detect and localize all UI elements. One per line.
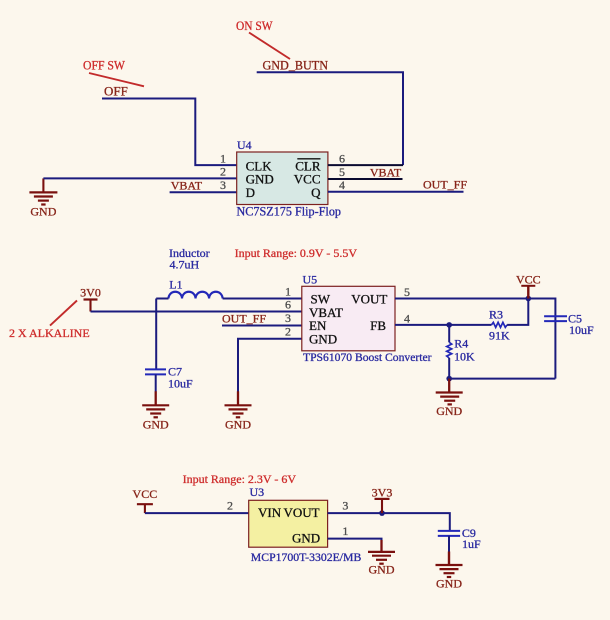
svg-text:D: D xyxy=(246,185,255,200)
svg-text:3V3: 3V3 xyxy=(372,485,393,499)
wire OFF to U4 pin 1 (CLK) xyxy=(102,99,237,166)
svg-text:NC7SZ175 Flip-Flop: NC7SZ175 Flip-Flop xyxy=(237,204,342,218)
pointer line for OFF SW xyxy=(89,73,144,86)
svg-text:10uF: 10uF xyxy=(168,376,193,390)
svg-text:2: 2 xyxy=(285,325,291,339)
wire C7 to ground xyxy=(155,374,157,391)
svg-text:TPS61070 Boost Converter: TPS61070 Boost Converter xyxy=(303,350,432,364)
junction dot 3V3 xyxy=(379,510,385,516)
svg-text:2 X ALKALINE: 2 X ALKALINE xyxy=(9,326,90,340)
svg-text:Input Range: 2.3V - 6V: Input Range: 2.3V - 6V xyxy=(183,472,297,486)
capacitor C5 xyxy=(544,316,567,321)
svg-text:MCP1700T-3302E/MB: MCP1700T-3302E/MB xyxy=(251,551,362,564)
svg-text:3: 3 xyxy=(220,178,226,192)
svg-text:6: 6 xyxy=(285,298,291,312)
junction dot VOUT/VCC xyxy=(526,296,532,302)
svg-text:GND: GND xyxy=(436,404,462,418)
svg-text:OFF SW: OFF SW xyxy=(83,59,125,73)
wire U5 pin 4 (FB) to R3 xyxy=(395,324,492,326)
pin 4 wire Q to OUT_FF xyxy=(328,191,464,193)
svg-text:VOUT: VOUT xyxy=(351,292,387,307)
wire R4 top lead xyxy=(448,325,450,342)
capacitor C7 xyxy=(145,369,166,374)
svg-text:VBAT: VBAT xyxy=(370,166,402,180)
wire VCC to U3 pin 2 (VIN) xyxy=(145,512,249,514)
svg-text:U4: U4 xyxy=(237,138,252,152)
ground GND (C7) xyxy=(142,391,169,417)
svg-text:3V0: 3V0 xyxy=(80,286,101,300)
svg-text:GND: GND xyxy=(369,562,395,576)
wire VBAT to U4 pin 3 (D) xyxy=(170,191,237,193)
IC U5 body xyxy=(302,286,395,351)
svg-text:VIN: VIN xyxy=(258,505,282,520)
svg-text:1uF: 1uF xyxy=(462,537,481,551)
wire bottom rail to C5 xyxy=(449,378,555,380)
svg-text:5: 5 xyxy=(404,285,410,299)
svg-text:OUT_FF: OUT_FF xyxy=(222,312,266,326)
svg-text:5: 5 xyxy=(339,165,345,179)
svg-text:OUT_FF: OUT_FF xyxy=(423,178,467,192)
wire battery branch down to C7 xyxy=(155,299,157,370)
svg-text:3: 3 xyxy=(285,311,291,325)
svg-text:GND: GND xyxy=(436,577,462,591)
resistor R3 xyxy=(492,322,508,327)
IC U4 body xyxy=(237,152,328,205)
svg-text:1: 1 xyxy=(342,524,348,538)
svg-text:GND: GND xyxy=(143,417,169,431)
inductor L1 coil xyxy=(169,292,223,299)
svg-text:VCC: VCC xyxy=(133,487,158,501)
junction dot R4/GND rail xyxy=(446,376,452,382)
svg-text:GND: GND xyxy=(309,331,337,346)
svg-text:Q: Q xyxy=(311,185,321,200)
svg-text:1: 1 xyxy=(220,151,226,165)
wire OUT_FF to U5 pin 3 (EN) xyxy=(222,325,302,327)
capacitor C9 xyxy=(438,531,460,536)
svg-text:2: 2 xyxy=(220,165,226,179)
wire R4 bottom lead xyxy=(448,358,450,379)
wire 3V0 rail to U5 pin 6 (VBAT) xyxy=(91,311,302,313)
svg-text:U3: U3 xyxy=(250,485,265,499)
ground GND (top left) xyxy=(29,178,57,204)
svg-text:VOUT: VOUT xyxy=(283,505,319,520)
wire U5 pin 2 (GND) down xyxy=(238,339,302,392)
wire R3 to VOUT rail xyxy=(507,299,528,325)
IC U3 body xyxy=(249,500,328,547)
svg-text:VBAT: VBAT xyxy=(171,179,203,193)
svg-text:Input Range: 0.9V - 5.5V: Input Range: 0.9V - 5.5V xyxy=(235,246,358,260)
wire U3 pin 1 (GND) down xyxy=(328,539,382,541)
svg-text:GND_BUTN: GND_BUTN xyxy=(263,59,329,73)
wire C9 to ground xyxy=(448,536,450,553)
pointer line for 2 X ALKALINE xyxy=(50,301,77,326)
wire inductor right lead to U5 pin 1 (SW) xyxy=(223,298,302,300)
svg-text:ON SW: ON SW xyxy=(236,19,273,33)
svg-text:OFF: OFF xyxy=(104,84,128,99)
wire U3 pin 3 (VOUT) to C9 xyxy=(328,513,450,531)
svg-text:GND: GND xyxy=(30,204,56,218)
svg-text:L1: L1 xyxy=(169,278,182,292)
svg-text:FB: FB xyxy=(370,318,386,333)
ground GND (U3 pin 1) xyxy=(368,540,395,564)
wire inductor left lead xyxy=(156,298,168,300)
svg-text:91K: 91K xyxy=(489,329,510,343)
pin 5 stub / VBAT wire xyxy=(328,178,403,180)
wire C5 bottom lead xyxy=(554,321,556,379)
ground GND (U5 pin 2) xyxy=(225,391,252,417)
svg-text:VCC: VCC xyxy=(516,272,541,286)
svg-text:10uF: 10uF xyxy=(569,323,594,337)
svg-text:2: 2 xyxy=(227,499,233,513)
ground GND (C9) xyxy=(436,552,463,578)
svg-text:6: 6 xyxy=(339,152,345,166)
ground GND (R4/C5) xyxy=(436,379,463,405)
wire GND to U4 pin 2 xyxy=(43,177,236,179)
resistor R4 xyxy=(447,342,452,358)
svg-text:U5: U5 xyxy=(303,272,318,286)
svg-text:3: 3 xyxy=(342,499,348,513)
svg-text:4: 4 xyxy=(404,312,410,326)
pin 6 stub (to GND_BUTN wire) xyxy=(328,164,403,166)
wire GND_BUTN to U4 pin 6 xyxy=(257,72,403,165)
svg-text:1: 1 xyxy=(285,285,291,299)
svg-text:4.7uH: 4.7uH xyxy=(170,257,200,271)
svg-text:GND: GND xyxy=(292,531,320,546)
svg-text:GND: GND xyxy=(225,417,251,431)
svg-text:10K: 10K xyxy=(454,349,475,363)
pointer line for ON SW xyxy=(249,33,290,60)
wire U5 pin 5 (VOUT) to C5 xyxy=(395,299,555,322)
svg-text:R3: R3 xyxy=(489,308,503,322)
junction dot FB/R4 xyxy=(446,322,452,328)
